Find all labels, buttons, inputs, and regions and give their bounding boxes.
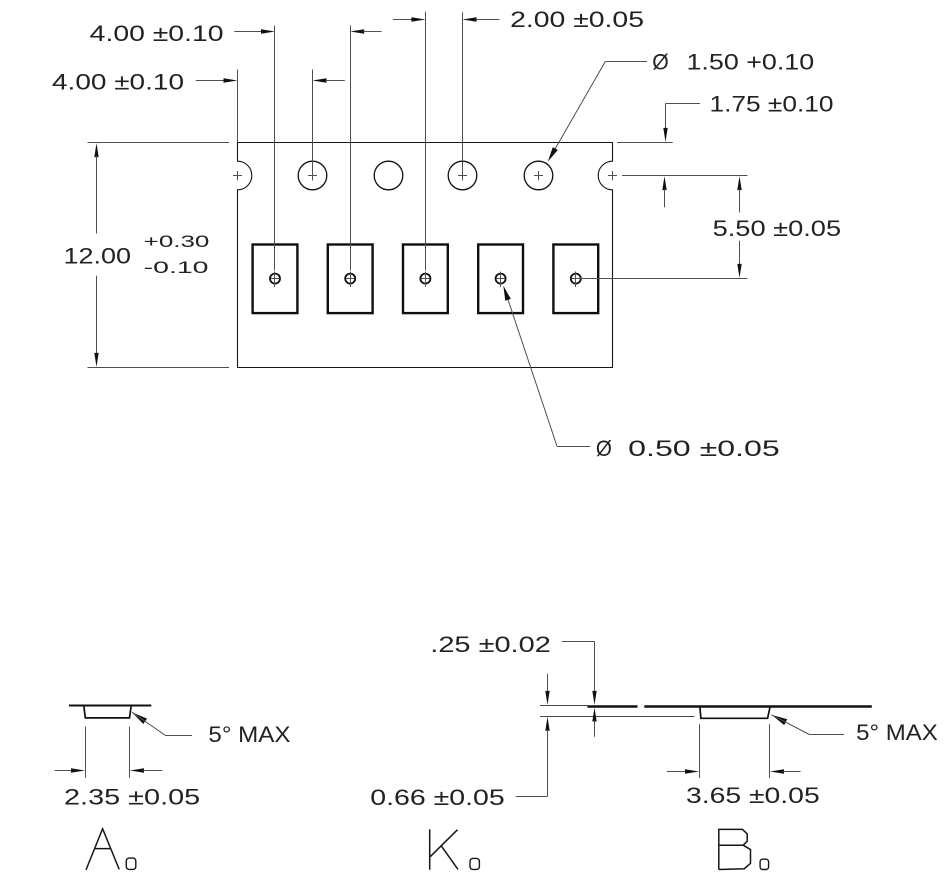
hole 4 centerline [462,12,464,180]
leader 5° MAX (A0) [132,712,147,724]
svg-text:5.50 ±0.05: 5.50 ±0.05 [713,216,842,241]
svg-text:-0.10: -0.10 [144,258,209,277]
svg-text:4.00 ±0.10: 4.00 ±0.10 [90,21,224,46]
dimension 0.66 ±0.05 pocket depth [547,674,549,692]
dimension 1.75 ±0.10 [617,142,673,144]
pocket 3 center mark [420,274,430,284]
hole 4 center mark [458,175,467,177]
dimension 12.00 +0.30/-0.10 tape width [88,142,230,144]
pocket 1 center mark [270,274,280,284]
hole 1 extension line [237,70,239,143]
A0 extension lines [85,727,87,778]
hole 5 center mark [534,175,543,177]
pocket 5 center mark [571,274,581,284]
svg-text:2.00 ±0.05: 2.00 ±0.05 [510,7,644,32]
label A0 [86,829,119,870]
svg-text:Ø: Ø [596,436,612,461]
component pocket 3 [403,245,448,314]
hole 2 center mark [308,175,317,177]
svg-text:Ø: Ø [652,50,669,75]
sprocket hole 5 [524,161,553,190]
sprocket hole 2 [298,161,327,190]
svg-text:.25 ±0.02: .25 ±0.02 [430,632,551,657]
svg-text:+0.30: +0.30 [144,232,210,251]
svg-text:2.35 ±0.05: 2.35 ±0.05 [64,785,200,810]
svg-text:12.00: 12.00 [64,243,132,268]
leader Ø1.50 sprocket hole diameter [605,61,647,63]
sprocket hole 3 [374,161,403,190]
leader Ø0.50 pocket hole diameter [557,446,590,448]
pocket 2 center mark [345,274,355,284]
pocket 3 centerline [425,12,427,271]
dimension 5.50 ±0.05 [580,278,747,280]
svg-text:3.65 ±0.05: 3.65 ±0.05 [686,783,820,808]
dimension 2.35 ±0.05 [55,770,72,772]
dimension 3.65 ±0.05 [667,771,687,773]
svg-text:4.00 ±0.10: 4.00 ±0.10 [52,70,184,95]
section B0 tape surface [644,705,872,707]
svg-text:5° MAX: 5° MAX [856,720,938,745]
pocket 1 centerline [274,26,276,271]
sprocket hole 4 [448,161,477,190]
label K0 [430,829,458,869]
component pocket 5 [553,245,598,314]
hole 2 centerline [312,70,314,181]
component pocket 4 [478,245,523,314]
svg-text:0.50 ±0.05: 0.50 ±0.05 [628,436,780,461]
section A0 pocket profile [84,706,131,718]
leader 5° MAX (B0) [772,715,788,725]
svg-text:1.50 +0.10: 1.50 +0.10 [687,50,815,75]
component pocket 1 [253,245,298,314]
B0 extension lines [699,724,701,778]
section B0 pocket profile [700,707,770,718]
svg-text:5° MAX: 5° MAX [208,722,290,747]
svg-text:0.66 ±0.05: 0.66 ±0.05 [370,785,504,810]
carrier tape outline [238,143,613,368]
hole 6 center mark [608,175,617,177]
svg-text:1.75 ±0.10: 1.75 ±0.10 [710,91,834,116]
pocket 4 center mark [496,274,506,284]
hole 1 center mark [233,175,242,177]
section K0 surface line [540,705,587,707]
pocket 2 centerline [350,26,352,271]
label B0 [719,829,751,869]
pocket bottom reference line [540,716,695,718]
component pocket 2 [328,245,373,314]
section A0 tape surface [69,705,151,707]
dimension 2.00 ±0.05 [393,19,412,21]
